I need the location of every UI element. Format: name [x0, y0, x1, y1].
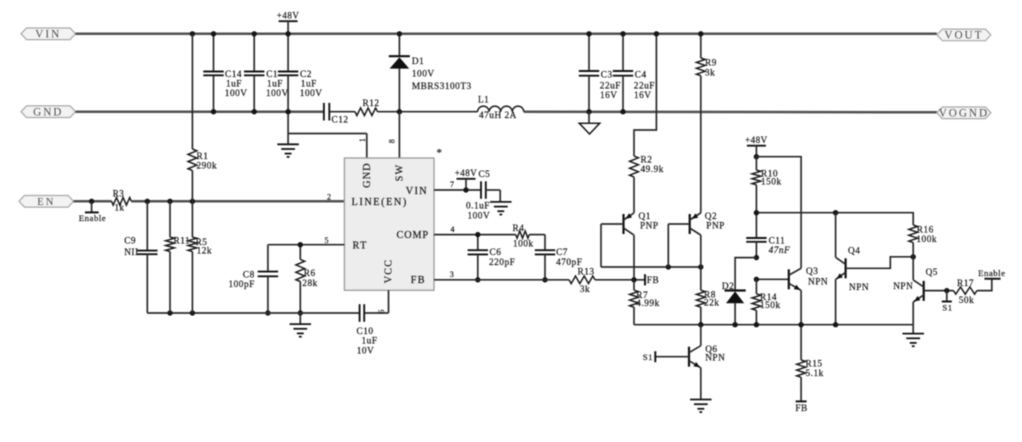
- svg-text:100V: 100V: [412, 70, 435, 80]
- resistor R15: [797, 325, 824, 402]
- capacitor C11: [746, 237, 790, 261]
- svg-text:R4: R4: [513, 224, 525, 234]
- net label S1 (right): [942, 291, 953, 313]
- wire Q5 base to R17: [924, 288, 954, 293]
- svg-text:R6: R6: [304, 269, 316, 279]
- svg-text:R17: R17: [957, 279, 974, 289]
- svg-text:49.9k: 49.9k: [641, 165, 664, 175]
- svg-text:12k: 12k: [197, 247, 212, 257]
- svg-text:22k: 22k: [704, 299, 719, 309]
- output port flag VOUT: [937, 29, 991, 42]
- svg-text:*: *: [437, 147, 443, 159]
- wire VCC pin: [388, 290, 390, 313]
- wire Q1 collector to FB node: [631, 235, 636, 282]
- pin number 7: [450, 180, 455, 189]
- inductor L1: [478, 95, 524, 120]
- wire FB pin: [434, 279, 569, 281]
- resistor R17: [953, 279, 977, 306]
- capacitor C3: [579, 31, 621, 114]
- transistor Q1 (PNP): [624, 212, 659, 235]
- wire current-mirror base link: [601, 224, 704, 270]
- pin number 8 (SW pin): [388, 138, 397, 143]
- ground (earth) under Q6: [690, 400, 712, 413]
- pin number 2: [327, 193, 332, 202]
- transistor Q5 (NPN, mirrored): [893, 268, 938, 302]
- pin number 5: [325, 236, 330, 245]
- svg-text:220pF: 220pF: [489, 258, 515, 268]
- wire Q6 emitter: [700, 368, 702, 400]
- svg-text:S1: S1: [942, 303, 952, 313]
- wire SW pin: [398, 112, 400, 158]
- svg-text:3k: 3k: [580, 285, 590, 295]
- wire Q6 base: [656, 356, 689, 358]
- wire EN to chip pin 2: [131, 200, 344, 203]
- transistor Q4 (NPN, mirrored): [836, 247, 870, 294]
- svg-text:C8: C8: [243, 270, 255, 280]
- svg-text:100k: 100k: [916, 235, 937, 245]
- svg-text:C12: C12: [332, 115, 349, 125]
- svg-text:150k: 150k: [761, 178, 782, 188]
- svg-text:R9: R9: [705, 59, 717, 69]
- svg-text:50k: 50k: [959, 296, 974, 306]
- pin number 6 (VCC pin): [377, 308, 386, 313]
- svg-text:3k: 3k: [705, 68, 715, 78]
- net label Enable (left): [79, 199, 106, 223]
- junction dots on GND rail left: [211, 109, 291, 114]
- svg-text:C9: C9: [124, 236, 136, 246]
- net label FB (centre): [645, 274, 659, 286]
- wire GND-SW segment: [329, 111, 355, 113]
- svg-text:16V: 16V: [634, 91, 652, 101]
- resistor R5: [188, 201, 212, 313]
- capacitor C8: [229, 245, 279, 316]
- svg-text:RT: RT: [353, 241, 368, 252]
- wire EN to R3: [74, 200, 112, 203]
- wire SW-L1 segment: [378, 111, 478, 113]
- wire Q3 emitter to rail: [800, 290, 802, 324]
- pin number 1 (GND pin): [358, 137, 367, 142]
- svg-text:C4: C4: [635, 70, 647, 80]
- input port flag EN: [19, 196, 74, 209]
- resistor R12: [355, 99, 380, 115]
- svg-text:150k: 150k: [760, 301, 781, 311]
- capacitor C2: [278, 34, 323, 112]
- svg-text:290k: 290k: [197, 161, 218, 171]
- svg-text:Enable: Enable: [79, 213, 106, 223]
- junction dot C5 node: [463, 187, 468, 192]
- net label FB (bottom): [795, 401, 807, 414]
- net label Enable (right): [977, 268, 1006, 291]
- svg-text:100V: 100V: [468, 212, 491, 222]
- svg-text:+48V: +48V: [277, 10, 300, 20]
- svg-text:1: 1: [358, 137, 367, 142]
- svg-text:EN: EN: [37, 197, 55, 208]
- svg-text:NPN: NPN: [849, 283, 869, 293]
- wire bias rail to R16: [754, 210, 914, 225]
- svg-text:10V: 10V: [357, 347, 375, 357]
- wire Q4 emitter to rail: [835, 279, 837, 324]
- svg-text:C10: C10: [357, 327, 374, 337]
- svg-text:5: 5: [325, 236, 330, 245]
- svg-text:C5: C5: [478, 170, 490, 180]
- svg-text:PNP: PNP: [706, 222, 725, 232]
- svg-text:Q2: Q2: [705, 212, 717, 222]
- wire +48V to Q3 collector: [756, 157, 801, 269]
- transistor Q3 (NPN): [789, 267, 828, 290]
- wire Q2 base link: [668, 224, 689, 267]
- svg-text:R3: R3: [113, 188, 125, 198]
- resistor R6: [296, 242, 318, 316]
- svg-text:100pF: 100pF: [229, 280, 255, 290]
- wire COMP pin: [434, 234, 516, 236]
- diode D2: [722, 282, 746, 325]
- svg-text:D2: D2: [722, 282, 734, 292]
- wire R2 to Q1 emitter: [633, 177, 635, 213]
- ground (earth) bottom-left: [290, 313, 312, 337]
- wire Q4 collector: [835, 213, 837, 258]
- junction dot SW node: [397, 109, 402, 114]
- resistor R9: [696, 31, 716, 213]
- svg-text:6: 6: [377, 308, 386, 313]
- wire Q5 emitter to rail: [912, 302, 914, 325]
- svg-text:0.1uF: 0.1uF: [466, 201, 490, 211]
- pin number 3: [450, 270, 455, 279]
- capacitor C5: [466, 181, 500, 221]
- capacitor C1: [244, 34, 289, 112]
- ground (power triangle) on VOGND: [579, 112, 600, 134]
- svg-text:NPN: NPN: [705, 353, 725, 363]
- resistor R1: [188, 34, 217, 202]
- svg-text:22uF: 22uF: [600, 82, 621, 92]
- transistor Q2 (PNP): [690, 212, 725, 235]
- diode D1: [389, 34, 472, 112]
- svg-text:100V: 100V: [266, 89, 289, 99]
- svg-text:1k: 1k: [115, 203, 125, 213]
- svg-text:C6: C6: [490, 248, 502, 258]
- svg-text:100V: 100V: [300, 89, 323, 99]
- wire VIN rail: [76, 33, 937, 36]
- svg-text:3: 3: [450, 270, 455, 279]
- svg-text:Q5: Q5: [926, 268, 938, 278]
- resistor R7: [630, 280, 660, 325]
- svg-text:100V: 100V: [225, 89, 248, 99]
- capacitor C4: [613, 31, 655, 114]
- svg-text:Q3: Q3: [806, 267, 818, 277]
- svg-text:NII: NII: [124, 248, 138, 258]
- resistor R16: [909, 225, 937, 257]
- svg-text:LINE(EN): LINE(EN): [352, 197, 408, 208]
- wire R4 to C7: [529, 234, 545, 236]
- svg-text:C3: C3: [601, 70, 613, 80]
- svg-text:+48V: +48V: [455, 168, 478, 178]
- wire Q6 collector: [700, 325, 702, 346]
- wire bottom-right rail: [634, 322, 913, 327]
- wire GND rail left: [76, 110, 324, 113]
- output port flag VOGND: [937, 107, 991, 120]
- power +48V (input): [277, 10, 300, 33]
- capacitor C6: [468, 232, 516, 283]
- capacitor C12: [324, 103, 349, 125]
- svg-text:Q4: Q4: [848, 247, 860, 257]
- ground (earth) under C2: [277, 144, 299, 157]
- svg-text:GND: GND: [33, 107, 63, 119]
- svg-text:100k: 100k: [513, 239, 534, 249]
- svg-text:GND: GND: [362, 162, 373, 188]
- transistor Q6 (NPN): [689, 345, 725, 368]
- resistor R11: [166, 201, 191, 313]
- svg-text:7: 7: [450, 180, 455, 189]
- svg-text:COMP: COMP: [397, 230, 429, 241]
- wire VOGND rail: [524, 110, 937, 113]
- svg-text:1uF: 1uF: [362, 337, 378, 347]
- svg-text:28k: 28k: [302, 279, 317, 289]
- svg-text:Enable: Enable: [978, 268, 1005, 278]
- input port flag GND: [21, 106, 76, 119]
- svg-text:47nF: 47nF: [769, 246, 791, 256]
- svg-text:+48V: +48V: [745, 135, 768, 145]
- svg-text:4.99k: 4.99k: [636, 299, 659, 309]
- svg-text:22uF: 22uF: [634, 82, 655, 92]
- wire Q3 base: [754, 277, 789, 282]
- svg-text:S1: S1: [643, 352, 653, 362]
- wire RT pin: [268, 244, 345, 246]
- resistor R2: [630, 156, 664, 177]
- resistor R4: [513, 224, 534, 249]
- asterisk mark: [437, 147, 443, 159]
- wire VIN pin to C5: [434, 189, 481, 191]
- svg-text:R12: R12: [363, 99, 380, 109]
- svg-text:R13: R13: [578, 267, 595, 277]
- svg-text:VOGND: VOGND: [939, 108, 989, 120]
- svg-text:C11: C11: [769, 237, 786, 247]
- svg-text:5.1k: 5.1k: [806, 369, 824, 379]
- wire VOUT drop to R2: [634, 31, 659, 156]
- svg-text:FB: FB: [411, 275, 426, 286]
- junction dots on VIN rail left: [190, 31, 291, 36]
- svg-text:MBRS3100T3: MBRS3100T3: [412, 82, 472, 92]
- wire C11 to D2: [735, 258, 756, 291]
- resistor R3: [112, 188, 132, 212]
- svg-text:D1: D1: [412, 57, 424, 67]
- svg-text:VIN: VIN: [406, 186, 428, 197]
- svg-text:PNP: PNP: [640, 222, 659, 232]
- wire Q5 collector: [912, 257, 914, 280]
- wire Q4 base to R16 node: [846, 254, 916, 268]
- junction dot +48V branch: [754, 154, 759, 159]
- capacitor C14: [203, 34, 247, 112]
- svg-text:Q1: Q1: [639, 212, 651, 222]
- svg-text:NPN: NPN: [808, 277, 828, 287]
- svg-text:NPN: NPN: [893, 282, 913, 292]
- svg-text:L1: L1: [478, 95, 489, 105]
- resistor R8: [696, 235, 719, 325]
- svg-text:16V: 16V: [600, 91, 618, 101]
- resistor R10: [752, 157, 782, 238]
- junction dot D1 top: [397, 31, 402, 36]
- svg-text:FB: FB: [795, 404, 807, 414]
- capacitor C7: [535, 235, 583, 283]
- power +48V (C5): [455, 168, 491, 190]
- ground (earth) under C5: [490, 202, 512, 215]
- capacitor C10: [357, 304, 378, 356]
- svg-text:VIN: VIN: [35, 29, 61, 41]
- svg-text:VCC: VCC: [384, 259, 395, 284]
- ground (earth) under Q5: [902, 325, 924, 347]
- junction dots on EN line: [145, 199, 195, 204]
- svg-text:SW: SW: [395, 164, 406, 182]
- svg-text:4: 4: [451, 225, 456, 234]
- svg-text:FB: FB: [647, 276, 659, 286]
- wire R13 to Q1 node: [595, 279, 645, 281]
- op-amp U1 regulator body: [344, 158, 434, 290]
- pin number 4: [451, 225, 456, 234]
- svg-text:2: 2: [327, 193, 332, 202]
- svg-text:VOUT: VOUT: [944, 30, 983, 42]
- svg-text:8: 8: [388, 138, 397, 143]
- resistor R13: [569, 267, 595, 295]
- svg-text:C7: C7: [556, 248, 568, 258]
- svg-text:47uH 2A: 47uH 2A: [479, 111, 517, 121]
- power +48V (right): [745, 135, 768, 157]
- net label S1 (Q6 base): [643, 351, 656, 362]
- wire GND drop to earth and chip GND pin: [286, 109, 367, 158]
- capacitor C9: [124, 236, 157, 313]
- wire bottom-left rail: [147, 201, 388, 315]
- input port flag VIN: [21, 28, 76, 41]
- resistor R14: [752, 279, 781, 324]
